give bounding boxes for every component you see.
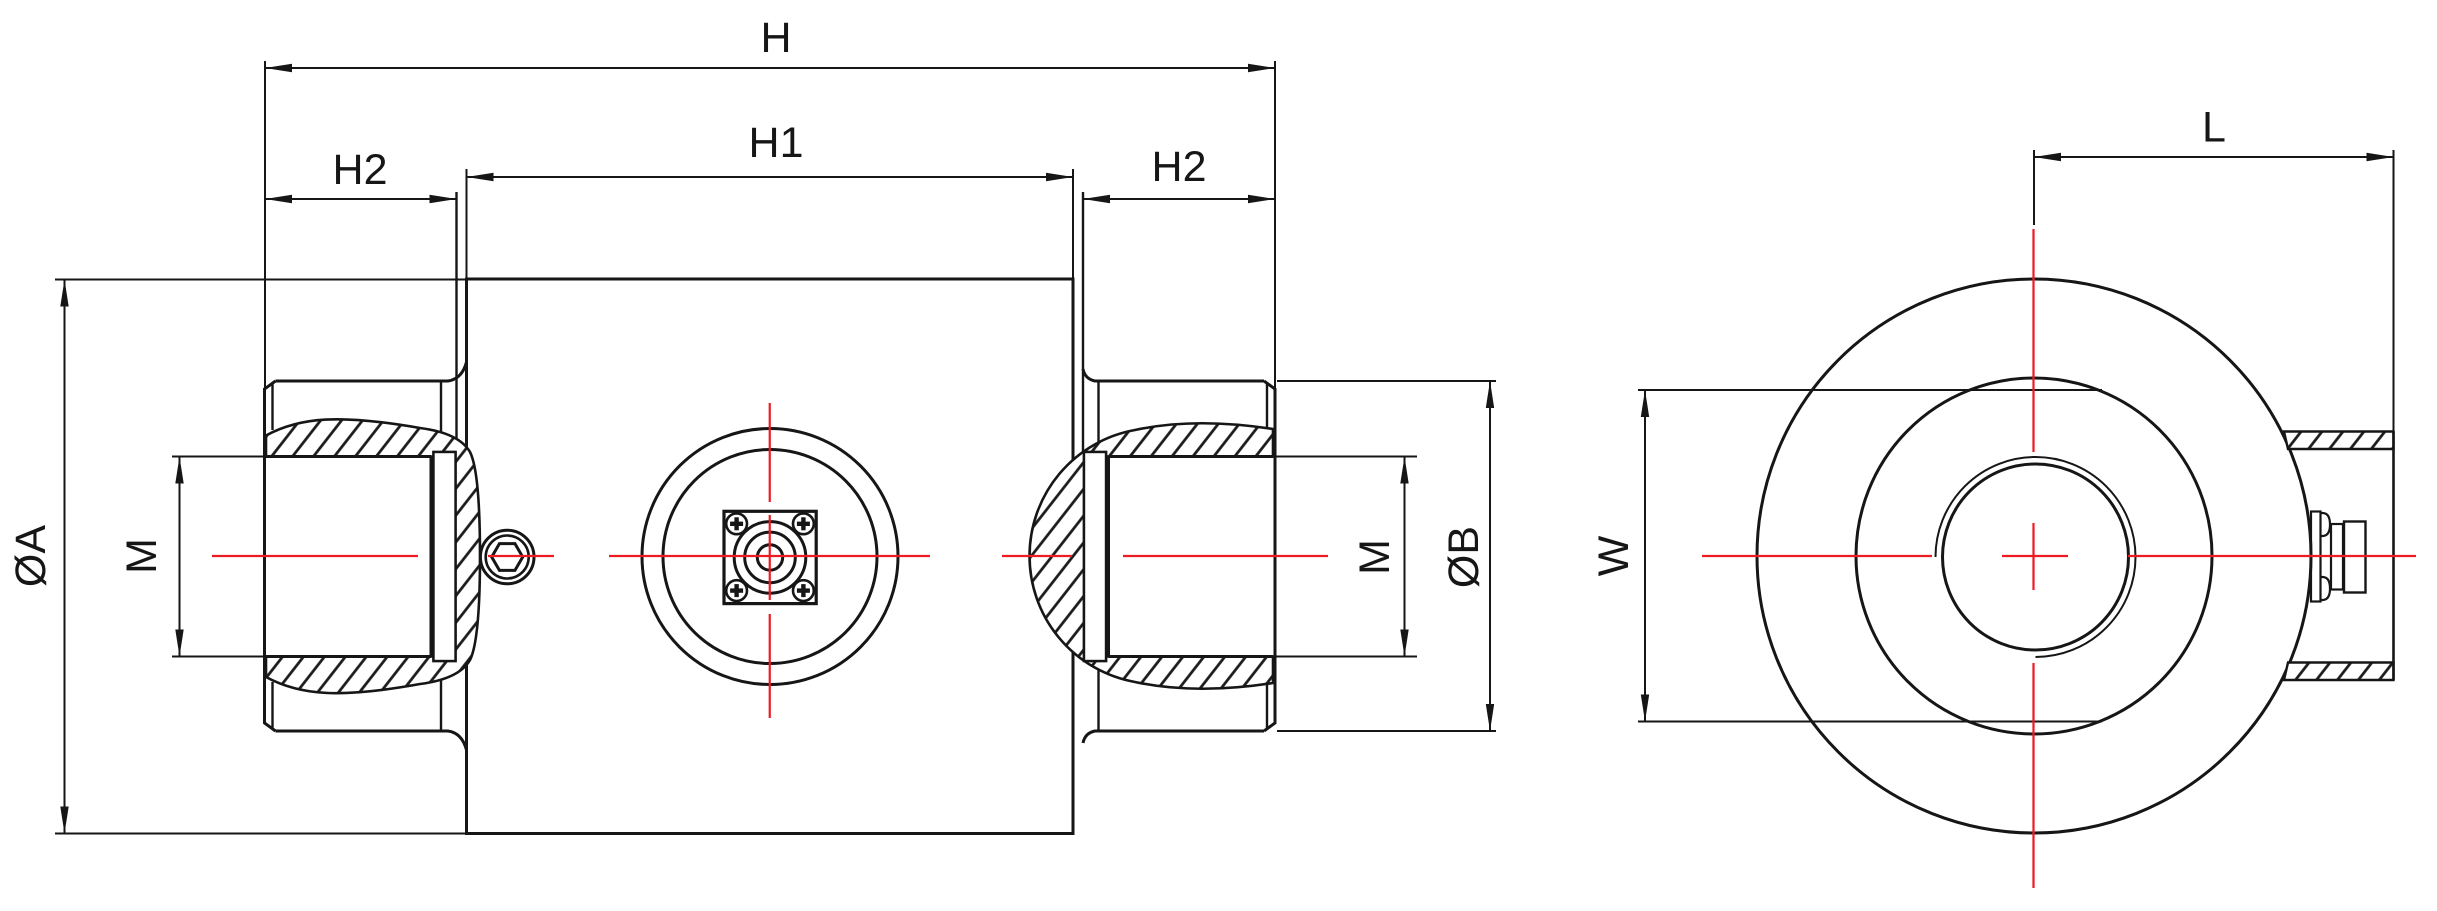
left view horizontal centerline <box>212 555 418 557</box>
flange screw top-left <box>726 513 747 534</box>
svg-text:H: H <box>760 14 791 62</box>
left boss outer face with chamfers <box>265 381 276 731</box>
svg-text:ØB: ØB <box>1440 526 1488 588</box>
right boss bottom edge with fillet to body <box>1083 731 1264 743</box>
left boss top edge with fillet to body <box>276 362 467 381</box>
extension line phi-A bottom <box>55 833 466 835</box>
connector side view: flange plate <box>2311 512 2321 602</box>
flange screw bottom-left <box>726 580 747 601</box>
sectioned boss slice top band <box>2284 432 2394 450</box>
left sectioned cap (hatched cup) <box>266 419 480 693</box>
flange screw bottom-right <box>793 580 814 601</box>
left pressure plate <box>434 452 456 661</box>
left boss hole bottom edge <box>266 655 431 658</box>
connector body circles <box>734 522 806 594</box>
flange screw top-right <box>793 513 814 534</box>
extension line H1 left <box>466 169 468 279</box>
left boss thread relief verticals <box>440 382 442 442</box>
dimension H <box>265 64 1275 72</box>
sectioned boss slice bottom band <box>2284 663 2394 681</box>
extension line H1 right <box>1072 169 1074 279</box>
extension line H2 left (inner step line A) <box>455 192 457 452</box>
connector side view: barrel <box>2344 522 2366 593</box>
hex socket set screw left <box>480 530 534 584</box>
dimension M right <box>1275 457 1417 657</box>
dimension M left <box>172 457 266 657</box>
extension line H right <box>1274 61 1276 389</box>
connector side view: screw bump top <box>2321 513 2331 536</box>
left boss bottom edge with fillet to body <box>276 731 467 750</box>
connector side view: screw bump bottom <box>2321 577 2331 600</box>
central connector boss inner circle <box>663 450 877 664</box>
boss circle <box>1856 378 2212 734</box>
svg-text:L: L <box>2202 104 2226 152</box>
left boss thread line (second face line) <box>271 383 273 430</box>
left view: main body outline <box>467 279 1074 834</box>
left boss hole end edge <box>430 457 433 657</box>
right boss thread line (second face line) <box>1266 383 1268 430</box>
dimension phi-A <box>60 280 68 834</box>
right boss thread relief verticals <box>1097 382 1099 442</box>
right boss top edge with fillet to body <box>1083 369 1264 381</box>
right boss hole top edge <box>1109 455 1274 458</box>
connector side view: neck <box>2331 524 2343 590</box>
svg-text:ØA: ØA <box>7 525 55 587</box>
svg-text:H2: H2 <box>333 146 388 194</box>
right boss outer face with chamfers <box>1264 381 1275 731</box>
svg-text:M: M <box>118 538 166 574</box>
thread major arc (270 deg) <box>1936 457 2136 657</box>
dimension H2 right <box>1083 195 1275 203</box>
connector square flange <box>724 511 816 603</box>
right sectioned cap (hatched cup) <box>1030 423 1273 689</box>
extension line phi-A top (body top edge extended left) <box>55 279 466 281</box>
right view vertical centerline <box>2032 229 2034 452</box>
right boss hole bottom edge <box>1109 655 1274 658</box>
dimension H2 left <box>265 195 457 203</box>
svg-text:M: M <box>1351 539 1399 575</box>
dimension L <box>2034 150 2394 432</box>
threaded hole circle <box>1943 464 2129 650</box>
body circle <box>1757 279 2311 833</box>
svg-text:H1: H1 <box>749 119 804 167</box>
extension line H2 right (inner step line A') <box>1082 192 1084 452</box>
boss slice right edge <box>2392 432 2395 681</box>
dimension W <box>1638 390 2102 722</box>
extension line H left <box>264 61 266 389</box>
central connector boss outer circle <box>642 429 898 685</box>
right boss hole end edge <box>1107 457 1110 657</box>
svg-text:W: W <box>1590 535 1638 576</box>
left boss hole top edge <box>266 455 431 458</box>
right view horizontal centerline <box>1702 555 1932 557</box>
left view vertical centerline <box>769 403 771 502</box>
right pressure plate <box>1084 452 1106 661</box>
dimension phi-B <box>1277 381 1496 731</box>
dimension H1 <box>467 173 1074 181</box>
svg-text:H2: H2 <box>1152 143 1207 191</box>
